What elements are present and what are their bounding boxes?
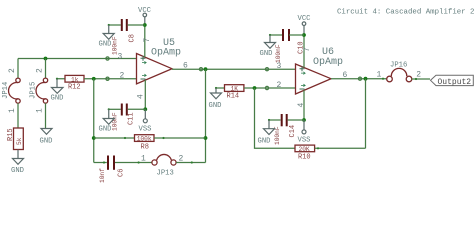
svg-text:2: 2	[120, 72, 125, 81]
power VCC of U5	[138, 7, 152, 25]
svg-text:C8: C8	[129, 34, 137, 42]
ground GND under JP15	[40, 129, 53, 146]
connector JP16	[377, 62, 431, 82]
op-amp U5	[137, 38, 182, 84]
wire feedback column U5	[205, 69, 207, 162]
svg-text:R12: R12	[68, 84, 81, 92]
svg-text:2: 2	[8, 68, 17, 73]
svg-text:1K: 1K	[231, 86, 239, 93]
svg-text:1: 1	[377, 71, 382, 80]
capacitor C8 100nF	[108, 19, 145, 55]
pin end circle U6 pin3	[265, 68, 268, 71]
svg-text:1: 1	[36, 108, 45, 113]
wire node A vertical	[93, 79, 95, 163]
svg-text:GND: GND	[258, 137, 271, 145]
svg-text:100k: 100k	[137, 136, 152, 143]
power VSS of U5	[139, 109, 152, 133]
node A junction (inverting input U5)	[92, 77, 96, 81]
power VSS of U6	[298, 120, 311, 145]
ground GND left of C10	[260, 43, 276, 59]
svg-text:100nF: 100nF	[112, 112, 119, 131]
op-amp U6	[296, 47, 344, 94]
svg-text:JP14: JP14	[2, 82, 10, 99]
pin end circle U5 pin6	[199, 68, 202, 71]
svg-text:6: 6	[183, 62, 188, 71]
svg-text:GND: GND	[40, 138, 53, 146]
svg-text:JP16: JP16	[390, 62, 407, 70]
ground GND left of C11	[99, 119, 115, 134]
wire pin7 U5	[144, 25, 146, 57]
pin end circle U6 pin6	[358, 77, 361, 80]
wire net input row A	[18, 58, 137, 60]
svg-text:OpAmp: OpAmp	[313, 57, 343, 68]
node junction R8 right	[204, 136, 208, 140]
svg-text:C14: C14	[289, 125, 297, 138]
node junction U5 output	[204, 67, 208, 71]
svg-text:JP13: JP13	[157, 170, 174, 178]
svg-text:20K: 20K	[299, 146, 310, 153]
node junction JP15/rowA	[44, 57, 48, 61]
svg-text:OpAmp: OpAmp	[151, 48, 181, 59]
ground GND left of C14	[258, 129, 275, 146]
connector JP14	[2, 59, 20, 128]
pin end circle U5 pin3	[106, 57, 109, 60]
wire pin4 U6	[303, 90, 305, 120]
svg-text:2: 2	[277, 81, 282, 90]
svg-text:C10: C10	[298, 41, 306, 54]
capacitor C10 100nF	[269, 29, 306, 63]
svg-text:100nF: 100nF	[275, 44, 282, 63]
connector JP15	[30, 59, 48, 129]
svg-text:4: 4	[137, 94, 146, 99]
svg-text:7: 7	[143, 38, 152, 43]
node junction R14/U6 pin2	[253, 86, 257, 90]
wire U6 output row	[331, 78, 387, 80]
svg-text:GND: GND	[209, 102, 222, 110]
pin end circle U5 pin2	[106, 77, 109, 80]
svg-text:2: 2	[179, 154, 184, 163]
svg-text:5k: 5k	[16, 137, 23, 145]
wire pin7 U6	[303, 35, 305, 68]
svg-text:R14: R14	[227, 93, 240, 101]
svg-text:GND: GND	[99, 40, 112, 48]
wire bottom row	[94, 162, 107, 164]
resistor R8	[94, 135, 206, 152]
svg-text:Output2: Output2	[438, 78, 472, 87]
svg-text:GND: GND	[11, 167, 24, 175]
svg-text:10nf: 10nf	[99, 168, 106, 183]
ground GND under R14	[209, 93, 222, 110]
svg-text:1: 1	[8, 108, 17, 113]
svg-text:GND: GND	[99, 126, 112, 134]
power VCC of U6	[298, 15, 312, 35]
ground GND under R15	[11, 159, 24, 176]
ground GND under R12	[51, 88, 64, 103]
resistor R12	[56, 75, 137, 91]
svg-text:100nF: 100nF	[112, 36, 119, 55]
svg-text:C6: C6	[118, 169, 126, 177]
node junction U6 output	[364, 77, 368, 81]
svg-text:GND: GND	[51, 95, 64, 103]
resistor R10	[295, 145, 366, 161]
capacitor C11 100nF	[108, 104, 146, 132]
wire feedback column U6	[365, 79, 367, 149]
svg-text:4: 4	[297, 103, 306, 108]
svg-text:VSS: VSS	[298, 137, 311, 145]
node junction R8 left	[92, 136, 96, 140]
svg-text:C11: C11	[128, 112, 136, 125]
wire pin4 U5	[144, 80, 146, 109]
connector JP13	[141, 154, 206, 177]
svg-text:GND: GND	[260, 50, 273, 58]
resistor R15	[7, 128, 23, 159]
svg-text:2: 2	[36, 68, 45, 73]
pin end circle U6 pin2	[265, 86, 268, 89]
capacitor C6 10nf	[99, 156, 152, 184]
net label Output2	[431, 75, 474, 87]
svg-text:R10: R10	[298, 153, 311, 161]
svg-text:2: 2	[416, 71, 421, 80]
wire node B column down to R10	[255, 88, 296, 148]
svg-text:VSS: VSS	[139, 126, 152, 134]
resistor R14	[215, 85, 296, 101]
svg-text:R15: R15	[7, 128, 15, 141]
svg-text:R8: R8	[141, 143, 149, 151]
svg-text:1: 1	[141, 154, 146, 163]
svg-text:JP15: JP15	[30, 82, 38, 99]
ground GND left of C8	[99, 34, 115, 49]
svg-text:Circuit 4: Cascaded Amplifier: Circuit 4: Cascaded Amplifier 2	[337, 9, 474, 17]
wire U5 output row	[172, 68, 296, 70]
svg-text:1k: 1k	[71, 76, 79, 83]
svg-text:6: 6	[343, 71, 348, 80]
capacitor C14 100nF	[268, 114, 304, 145]
